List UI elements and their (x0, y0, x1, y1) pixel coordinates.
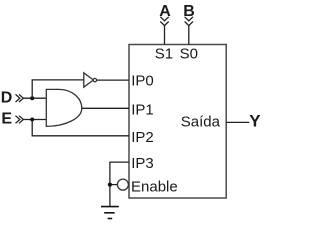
wire Enable stub (110, 184, 118, 186)
svg-text:IP2: IP2 (131, 129, 154, 146)
wire E to IP2 (32, 120, 129, 136)
svg-text:Y: Y (249, 112, 261, 131)
junction E (30, 118, 34, 122)
svg-text:S0: S0 (180, 46, 198, 63)
junction D (30, 96, 34, 100)
Enable bubble (active low) (117, 179, 128, 190)
svg-text:IP1: IP1 (131, 101, 154, 118)
input connector chevron A (down) (160, 17, 168, 26)
multiplexer box U1 (129, 45, 226, 199)
svg-text:E: E (1, 111, 12, 128)
svg-text:Saída: Saída (181, 113, 221, 130)
svg-text:D: D (1, 90, 13, 107)
wire inverter to IP0 (97, 79, 129, 81)
svg-text:S1: S1 (155, 46, 173, 63)
input connector chevron B (down) (185, 17, 193, 26)
wire D to inverter (32, 80, 83, 98)
wire IP3 to ground (110, 162, 129, 207)
wire A to S1 (164, 26, 166, 45)
svg-text:IP0: IP0 (131, 73, 154, 90)
inverter U2 triangle (84, 73, 94, 87)
ground symbol (101, 207, 119, 219)
wire E input (23, 119, 46, 121)
input connector chevron E (16, 116, 24, 124)
inverter U2 bubble (93, 78, 96, 81)
junction Enable/ground (108, 183, 112, 187)
wire B to S0 (188, 26, 190, 45)
wire Saida output (226, 121, 249, 123)
svg-text:Enable: Enable (131, 178, 178, 195)
wire AND output to IP1 (82, 107, 129, 109)
input connector chevron D (16, 94, 24, 102)
svg-text:IP3: IP3 (131, 155, 154, 172)
wire D input (23, 97, 46, 99)
AND gate U3 (46, 89, 82, 126)
